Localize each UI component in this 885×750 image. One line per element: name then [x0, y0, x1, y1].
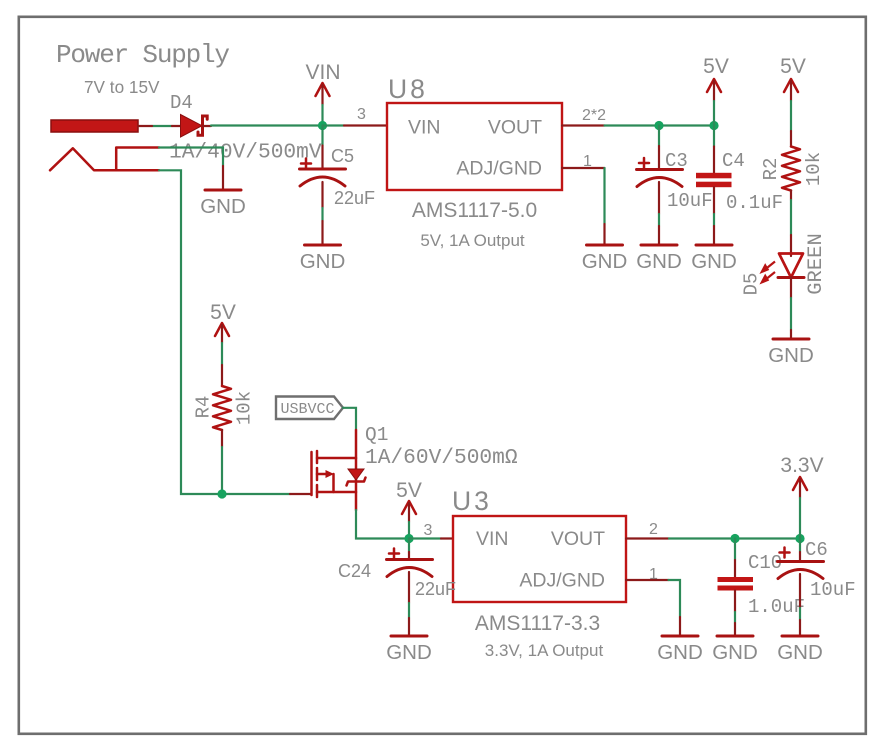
wire 5V to node C [713, 101, 715, 126]
svg-text:D5: D5 [741, 273, 763, 296]
pin U8 ADJ [562, 167, 605, 169]
svg-text:GND: GND [636, 250, 682, 273]
svg-text:Power Supply: Power Supply [56, 40, 229, 70]
ground (C10) [712, 623, 758, 664]
svg-text:5V: 5V [780, 55, 806, 78]
wire 5V to R2 [790, 101, 792, 131]
svg-text:U3: U3 [452, 486, 492, 516]
capacitor C5 [300, 126, 376, 209]
capacitor C6 [778, 539, 856, 609]
supply 5V arrow (U3) [396, 479, 422, 522]
svg-text:10k: 10k [803, 152, 825, 186]
ground (D5) [768, 330, 814, 367]
capacitor C4 [696, 126, 783, 215]
svg-text:C10: C10 [748, 552, 782, 574]
svg-text:U8: U8 [388, 74, 428, 104]
svg-text:5V: 5V [396, 479, 422, 502]
supply 5V arrow (R2) [780, 55, 806, 101]
capacitor C24 [338, 539, 456, 604]
ground (C24) [386, 618, 432, 664]
svg-text:GND: GND [691, 250, 737, 273]
svg-text:D4: D4 [170, 92, 193, 114]
svg-text:GND: GND [768, 344, 814, 367]
svg-text:3: 3 [424, 522, 433, 539]
supply 3.3V arrow [780, 454, 823, 498]
wire node E to U3 pin3 [409, 537, 441, 539]
svg-text:3.3V: 3.3V [780, 454, 823, 477]
wire Q1 to 5V rail bottom [356, 510, 409, 539]
svg-text:10uF: 10uF [810, 579, 856, 601]
pin U3 VOUT [626, 537, 669, 539]
node C junction (C4/5V) [709, 121, 718, 130]
svg-text:10k: 10k [234, 391, 256, 425]
wire C10 to gnd [734, 612, 736, 623]
node A junction [318, 121, 327, 130]
wire ADJ down [669, 580, 681, 617]
svg-text:AMS1117-5.0: AMS1117-5.0 [412, 199, 537, 222]
ground (C3) [636, 226, 682, 273]
wire 5V to R4 [221, 343, 223, 365]
ground (C6) [777, 620, 823, 664]
ground (U3 adj) [657, 617, 703, 664]
svg-text:Q1: Q1 [365, 424, 388, 446]
IC U8 box [387, 74, 562, 250]
wire C6 to gnd [799, 608, 801, 620]
svg-text:GND: GND [582, 250, 628, 273]
supply 5V arrow (R4) [210, 301, 236, 343]
svg-text:USBVCC: USBVCC [281, 401, 335, 418]
LED D5 [741, 233, 829, 298]
svg-text:VIN: VIN [476, 528, 509, 550]
IC U3 box [452, 486, 626, 660]
svg-text:5V: 5V [703, 55, 729, 78]
svg-text:C3: C3 [665, 150, 688, 172]
wire VIN to node A [321, 105, 323, 126]
svg-text:0.1uF: 0.1uF [726, 192, 783, 214]
node G junction (C6/3.3V) [795, 534, 804, 543]
svg-text:1A/60V/500mΩ: 1A/60V/500mΩ [365, 446, 518, 470]
wire jack sleeve long rail down-left [159, 170, 290, 494]
svg-text:22uF: 22uF [334, 188, 375, 208]
svg-text:C6: C6 [805, 539, 828, 561]
svg-text:R4: R4 [193, 396, 215, 419]
resistor R4 [193, 365, 256, 447]
svg-text:1.0uF: 1.0uF [748, 596, 805, 618]
pin U3 ADJ [626, 579, 669, 581]
svg-text:10uF: 10uF [667, 190, 713, 212]
wire VOUT rail [605, 124, 715, 126]
wire node A to U8 pin3 [323, 124, 345, 126]
wire R4 to node D [221, 447, 223, 494]
svg-text:ADJ/GND: ADJ/GND [519, 570, 605, 592]
ground (C5) [300, 221, 346, 273]
svg-text:GND: GND [777, 641, 823, 664]
wire C4 to gnd [713, 214, 715, 226]
svg-text:C4: C4 [722, 150, 745, 172]
svg-text:3.3V, 1A Output: 3.3V, 1A Output [485, 641, 604, 660]
svg-text:7V to 15V: 7V to 15V [84, 77, 160, 97]
ground (U8 adj) [582, 224, 628, 273]
svg-text:22uF: 22uF [415, 579, 456, 599]
transistor Q1 (P-MOSFET) [290, 424, 518, 510]
diode D4 (schottky) [138, 115, 211, 138]
node B junction (C3) [654, 121, 663, 130]
supply VIN arrow [305, 61, 340, 105]
wire VOUT rail bottom [669, 537, 800, 539]
svg-text:AMS1117-3.3: AMS1117-3.3 [475, 612, 600, 635]
svg-text:GND: GND [386, 641, 432, 664]
svg-text:VOUT: VOUT [551, 528, 605, 550]
svg-text:2*2: 2*2 [582, 107, 606, 124]
ground (jack) [200, 166, 246, 218]
ground (C4) [691, 226, 737, 273]
wire D4 to node A [211, 124, 323, 126]
wire ADJ down [603, 168, 605, 224]
node E junction [404, 534, 413, 543]
svg-text:5V: 5V [210, 301, 236, 324]
wire R2 to D5 [790, 200, 792, 235]
connector J1 barrel jack [50, 120, 159, 170]
pin U8 VOUT [562, 124, 605, 126]
svg-text:GND: GND [657, 641, 703, 664]
wire 3.3V to node G [799, 498, 801, 539]
wire C3 to gnd [658, 214, 660, 226]
resistor R2 [760, 131, 825, 200]
svg-text:GREEN: GREEN [805, 233, 828, 295]
wire USBVCC to Q1 gate-drain [343, 408, 356, 430]
svg-text:C5: C5 [331, 146, 354, 166]
svg-text:ADJ/GND: ADJ/GND [456, 158, 542, 180]
node F junction (C10) [730, 534, 739, 543]
wire C24 to gnd [408, 603, 410, 618]
svg-text:VOUT: VOUT [488, 117, 542, 139]
svg-text:VIN: VIN [408, 117, 441, 139]
svg-text:5V, 1A Output: 5V, 1A Output [420, 231, 525, 250]
capacitor C10 [718, 539, 806, 619]
svg-text:1A/40V/500mV: 1A/40V/500mV [169, 141, 322, 165]
wire D5 to gnd [790, 298, 792, 330]
wire C5 to gnd [321, 208, 323, 221]
net flag USBVCC [276, 397, 343, 420]
wire jack switch to GND [159, 148, 223, 167]
wire jack tip to D4 [152, 125, 172, 127]
capacitor C3 [637, 126, 713, 215]
wire 5V to node E [408, 522, 410, 539]
svg-text:2: 2 [649, 521, 658, 538]
svg-text:3: 3 [357, 106, 366, 123]
svg-text:VIN: VIN [305, 61, 340, 84]
supply 5V arrow (top first) [703, 55, 729, 101]
node D junction [217, 489, 226, 498]
svg-text:C24: C24 [338, 561, 371, 581]
svg-text:GND: GND [300, 250, 346, 273]
svg-text:GND: GND [712, 641, 758, 664]
svg-text:GND: GND [200, 195, 246, 218]
svg-text:R2: R2 [760, 158, 782, 181]
